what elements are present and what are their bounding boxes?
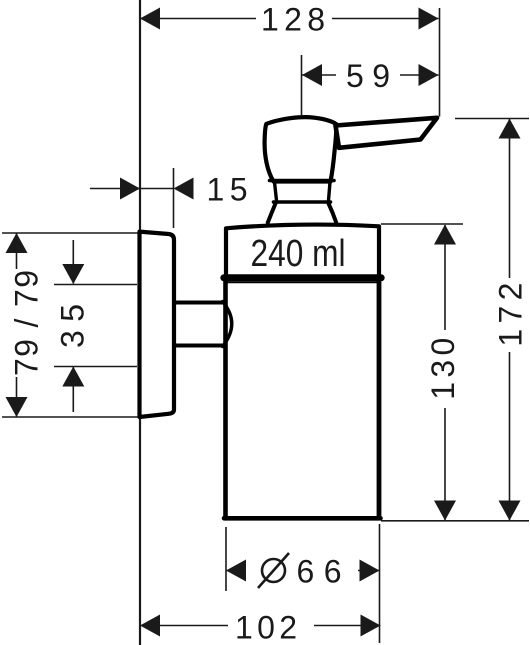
pump head bottom line bbox=[270, 179, 335, 183]
arrow 128 left bbox=[140, 8, 160, 30]
extension line collar top right bbox=[381, 223, 463, 225]
dim line 35 lower bbox=[72, 367, 74, 413]
arrow 35 bottom bbox=[62, 367, 84, 387]
arrow 102 right bbox=[361, 615, 381, 637]
bracket arm bottom bbox=[175, 344, 224, 348]
extension line spout top right bbox=[455, 118, 529, 120]
extension line body right bottom bbox=[379, 524, 381, 643]
arrow 128 right bbox=[419, 8, 439, 30]
extension line plate top bbox=[2, 232, 139, 234]
arrow 59 left bbox=[302, 64, 322, 86]
dim line 15 bbox=[90, 188, 174, 190]
pump flare bbox=[268, 204, 336, 223]
body left wall bbox=[223, 281, 228, 518]
svg-text:172: 172 bbox=[493, 283, 529, 347]
arrow 130 bottom bbox=[434, 501, 456, 521]
arrow 15 right bbox=[174, 178, 194, 200]
diameter symbol bbox=[258, 553, 289, 588]
wall plate bbox=[140, 232, 175, 417]
pump neck walls bbox=[275, 182, 331, 201]
svg-text:130: 130 bbox=[425, 338, 461, 400]
body top line bbox=[226, 281, 378, 283]
arrow 102 left bbox=[140, 615, 160, 637]
extension line bracket front bbox=[173, 168, 175, 228]
arrow 172 top bbox=[499, 119, 521, 139]
extension line hole lower bbox=[54, 366, 137, 368]
arrow 79 top bbox=[6, 233, 28, 253]
arrow 35 top bbox=[62, 264, 84, 284]
dim line 130 bbox=[444, 225, 446, 521]
dim line 79/79 bbox=[16, 233, 18, 417]
extension line plate bottom bbox=[2, 416, 139, 418]
dim line 66 bbox=[226, 570, 380, 572]
collar (240 ml section) bbox=[226, 225, 379, 280]
extension line bottom right bbox=[381, 520, 529, 522]
dim line 172 bbox=[509, 119, 511, 521]
arrow 130 top bbox=[434, 225, 456, 245]
pump neck line lower bbox=[274, 200, 331, 204]
svg-text:128: 128 bbox=[261, 2, 325, 38]
extension line hole upper bbox=[54, 284, 137, 286]
clamp arc bbox=[223, 302, 232, 347]
dim line 102 bbox=[140, 625, 381, 627]
extension line body left bottom bbox=[225, 527, 227, 591]
soap dispenser drawing bbox=[140, 117, 438, 518]
collar bottom band bbox=[224, 274, 381, 281]
extension line spout tip bbox=[439, 8, 441, 117]
svg-text:240 ml: 240 ml bbox=[251, 233, 346, 275]
arrow 66 left bbox=[226, 560, 246, 582]
body bottom bbox=[224, 516, 381, 521]
arrow 172 bottom bbox=[499, 501, 521, 521]
svg-text:79 / 79: 79 / 79 bbox=[9, 270, 45, 376]
bracket arm top bbox=[175, 301, 224, 305]
dim line 35 upper bbox=[72, 240, 74, 284]
svg-text:102: 102 bbox=[235, 610, 297, 645]
arrow 79 bottom bbox=[6, 397, 28, 417]
wall line bbox=[139, 0, 141, 645]
arrow 15 left bbox=[120, 178, 140, 200]
body right wall bbox=[377, 281, 382, 518]
dim line 59 bbox=[302, 74, 439, 76]
dim line 128 bbox=[140, 18, 439, 20]
pump head bbox=[265, 117, 337, 181]
arrow 59 right bbox=[419, 64, 439, 86]
extension line pump center bbox=[301, 55, 303, 115]
arrow 66 right bbox=[360, 560, 380, 582]
spout lever bbox=[336, 118, 438, 148]
